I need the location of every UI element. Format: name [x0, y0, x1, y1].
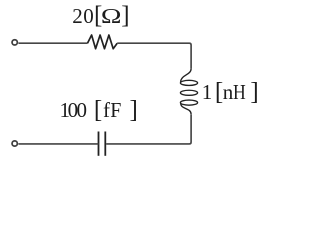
svg-text:H: H	[233, 82, 246, 105]
wire top-right with corner down	[117, 43, 191, 69]
svg-text:0: 0	[76, 98, 87, 122]
terminal bottom-left	[12, 141, 17, 146]
svg-text:[: [	[94, 96, 102, 123]
label 20[Ω]	[72, 2, 129, 29]
label 100[fF]	[60, 96, 138, 123]
resistor 20Ω	[88, 35, 118, 49]
label 1[nH]	[202, 78, 259, 105]
svg-text:]: ]	[121, 2, 129, 29]
wire right-bottom with corner	[106, 114, 191, 143]
svg-text:n: n	[223, 80, 234, 104]
svg-text:F: F	[110, 100, 121, 123]
svg-text:0: 0	[83, 4, 94, 28]
svg-text:2: 2	[72, 4, 83, 28]
wire bottom-left	[18, 143, 98, 145]
svg-text:]: ]	[129, 96, 137, 123]
wire top-left	[18, 42, 87, 44]
svg-text:f: f	[103, 98, 110, 122]
svg-text:Ω: Ω	[101, 5, 122, 28]
inductor 1nH	[180, 69, 197, 115]
svg-text:]: ]	[250, 78, 258, 105]
terminal top-left	[12, 40, 17, 45]
capacitor 100fF	[99, 132, 106, 156]
svg-text:1: 1	[202, 80, 213, 104]
